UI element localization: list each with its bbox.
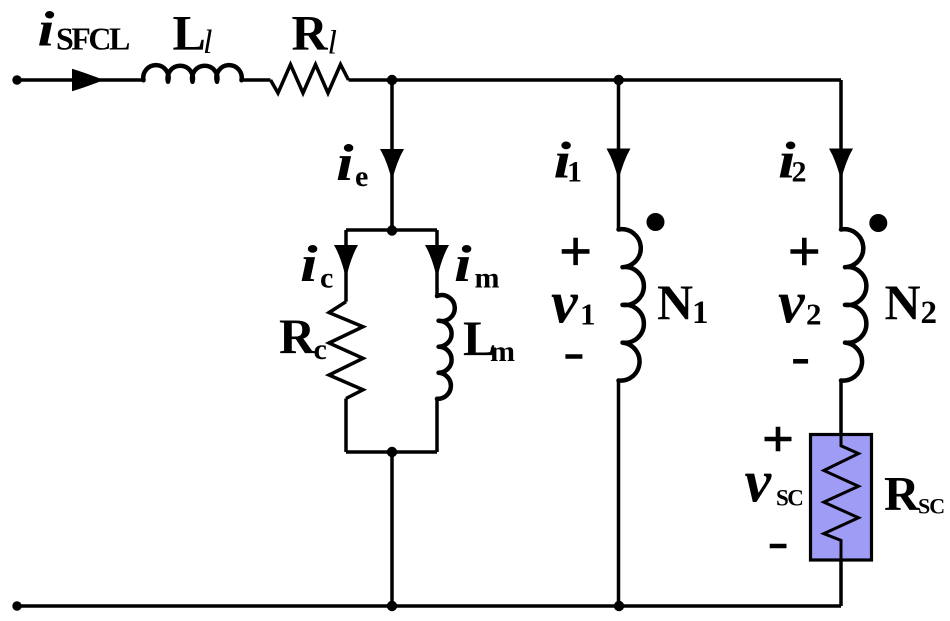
- svg-text:l: l: [328, 25, 337, 62]
- winding N1: [619, 229, 644, 380]
- arrow iSFCL: [72, 69, 104, 92]
- wire top rail left segment: [17, 78, 144, 82]
- svg-text:SFCL: SFCL: [56, 21, 129, 57]
- wire Lm branch lower: [435, 399, 439, 452]
- wire N2 branch upper: [839, 80, 843, 230]
- wire ie branch vertical: [390, 80, 394, 230]
- arrow ie: [380, 149, 404, 181]
- svg-text:i: i: [300, 234, 318, 292]
- winding N2: [841, 229, 866, 380]
- polarity dot N1: [647, 213, 665, 231]
- svg-text:v: v: [745, 449, 773, 515]
- svg-text:R: R: [279, 308, 316, 364]
- wire bottom rail: [17, 604, 841, 608]
- wire Rc branch lower: [344, 399, 348, 453]
- arrow i1: [607, 149, 631, 181]
- svg-text:2: 2: [921, 295, 938, 331]
- resistor Rc: [329, 302, 363, 399]
- inductor Ll: [143, 65, 242, 82]
- wire between Ll and Rl: [242, 78, 271, 82]
- inductor Lm: [437, 295, 455, 399]
- plus v2: [790, 238, 818, 265]
- plus v1: [562, 238, 590, 265]
- node top junction ie: [387, 75, 397, 85]
- arrow i2: [829, 149, 853, 181]
- wire Rsc to bottom rail: [839, 560, 843, 607]
- minus vsc: [770, 544, 787, 549]
- svg-text:c: c: [314, 333, 327, 366]
- svg-text:l: l: [203, 24, 212, 61]
- arrow im: [425, 245, 449, 279]
- wire N1 branch lower: [617, 381, 621, 607]
- node RcLm bottom: [387, 447, 397, 457]
- resistor Rsc zigzag: [824, 435, 859, 560]
- minus v1: [565, 354, 582, 359]
- svg-text:e: e: [355, 160, 368, 193]
- wire top rail right of Rl to corner: [349, 78, 842, 82]
- svg-text:m: m: [490, 335, 515, 368]
- svg-text:2: 2: [792, 156, 807, 189]
- svg-text:SC: SC: [776, 486, 802, 511]
- svg-text:SC: SC: [918, 494, 944, 519]
- node top junction N1: [614, 75, 624, 85]
- wire Rc branch upper: [344, 230, 348, 302]
- svg-text:i: i: [454, 234, 472, 292]
- wire Rc-Lm bottom horizontal: [346, 450, 437, 454]
- svg-text:2: 2: [806, 297, 822, 332]
- wire Lm branch upper: [435, 230, 439, 296]
- wire center branch to bottom rail: [390, 452, 394, 606]
- node RcLm top: [387, 225, 397, 235]
- svg-text:1: 1: [580, 297, 596, 332]
- svg-text:v: v: [778, 270, 806, 336]
- svg-text:R: R: [884, 466, 920, 521]
- svg-text:L: L: [173, 5, 206, 61]
- plus vsc: [765, 427, 792, 451]
- svg-text:N: N: [885, 274, 921, 330]
- svg-text:1: 1: [692, 295, 709, 331]
- svg-text:R: R: [292, 5, 329, 61]
- resistor Rsc box: [811, 435, 872, 561]
- node bottom center: [387, 601, 397, 611]
- minus v2: [793, 359, 808, 364]
- resistor Rl: [271, 65, 349, 94]
- terminal dot bottom left: [12, 601, 21, 610]
- wire Rc-Lm top horizontal: [346, 228, 437, 232]
- polarity dot N2: [869, 214, 887, 232]
- terminal dot top left: [12, 75, 21, 84]
- wire N2 branch between coil and Rsc: [839, 381, 843, 435]
- svg-text:m: m: [475, 262, 500, 295]
- svg-text:1: 1: [567, 156, 582, 189]
- wire N1 branch upper: [617, 80, 621, 230]
- arrow ic: [334, 245, 358, 279]
- svg-text:i: i: [38, 2, 55, 58]
- svg-text:i: i: [336, 133, 354, 191]
- node bottom N1: [614, 601, 624, 611]
- svg-text:c: c: [320, 262, 333, 295]
- svg-text:N: N: [657, 274, 693, 330]
- svg-text:v: v: [551, 270, 579, 336]
